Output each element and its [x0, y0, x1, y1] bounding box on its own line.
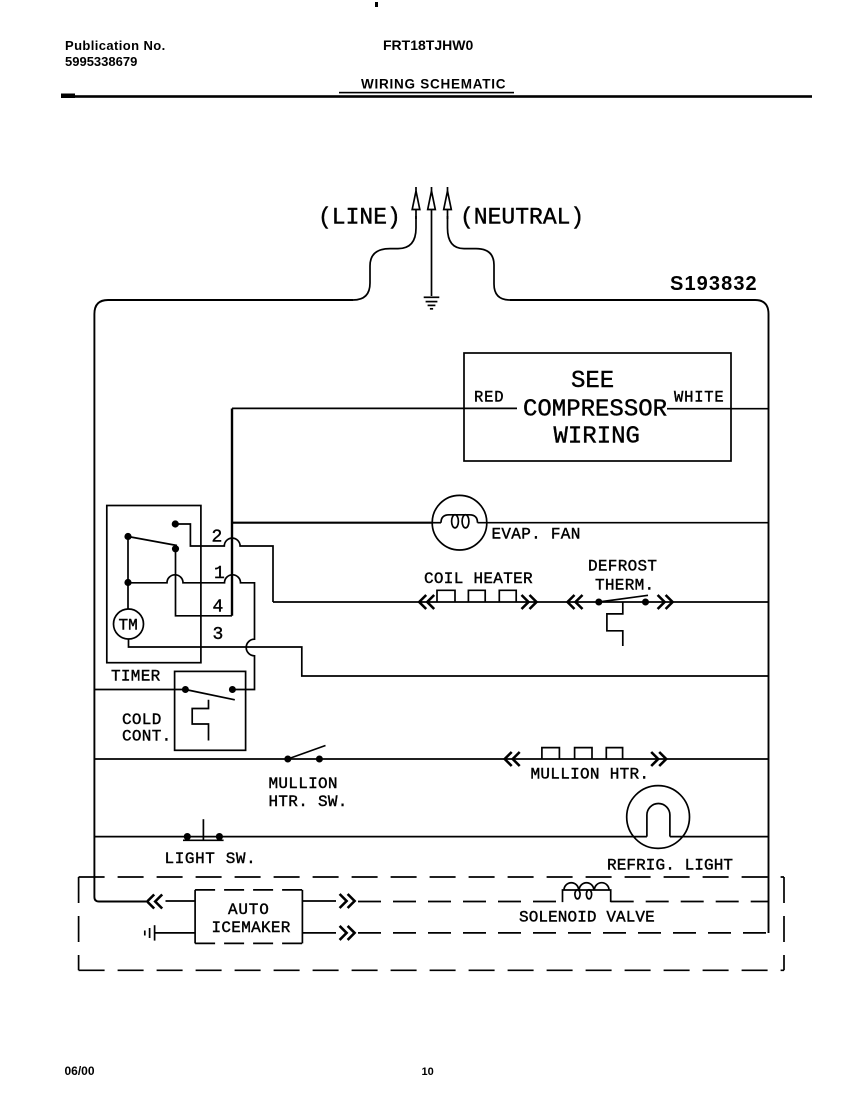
refrigerator light bulb	[627, 786, 690, 849]
defrost therm contact right	[642, 599, 649, 606]
timer motor TM	[114, 609, 144, 639]
svg-text:RED: RED	[474, 389, 504, 407]
plug prong line	[412, 187, 420, 219]
title underline	[339, 92, 514, 94]
wire compressor to white to right border	[667, 408, 769, 410]
defrost therm capillary	[607, 603, 623, 647]
svg-text:(LINE): (LINE)	[318, 205, 401, 231]
svg-text:THERM.: THERM.	[595, 577, 654, 595]
wire heater line	[273, 601, 769, 603]
svg-text:2: 2	[212, 527, 223, 547]
evap fan motor circle	[432, 495, 487, 550]
wire chevron to icemaker	[166, 900, 196, 902]
wire terminal 4	[176, 549, 233, 616]
svg-text:MULLION HTR.: MULLION HTR.	[531, 766, 650, 784]
dashed wire solenoid to border	[611, 901, 769, 903]
plug prong ground pin	[428, 187, 436, 296]
wire evap fan line left	[232, 522, 432, 524]
wire to cold control	[94, 689, 185, 691]
ground symbol under plug	[424, 297, 440, 309]
svg-text:WHITE: WHITE	[674, 389, 725, 407]
timer box	[107, 506, 201, 663]
svg-text:COMPRESSOR: COMPRESSOR	[523, 397, 667, 424]
chevron right mullion heater	[651, 752, 666, 766]
mullion switch arm	[288, 746, 326, 760]
chevron left coil heater	[419, 595, 434, 609]
mullion switch contact right	[316, 756, 323, 763]
icemaker ground	[145, 925, 195, 940]
coil heater element	[437, 590, 516, 602]
svg-text:COIL HEATER: COIL HEATER	[424, 570, 533, 588]
svg-text:SEE: SEE	[571, 368, 614, 395]
cold control contact left	[182, 686, 189, 693]
cold control capillary	[192, 700, 208, 741]
chevron right defrost therm	[658, 595, 673, 609]
wire icemaker to chevron bottom	[302, 932, 336, 934]
svg-text:SOLENOID VALVE: SOLENOID VALVE	[519, 909, 655, 927]
speck top center	[375, 2, 378, 7]
chevron left defrost therm	[568, 595, 583, 609]
wire terminal 1	[128, 575, 255, 690]
svg-text:ICEMAKER: ICEMAKER	[212, 919, 291, 937]
auto icemaker box	[195, 890, 302, 944]
svg-text:FRT18TJHW0: FRT18TJHW0	[383, 37, 473, 53]
svg-text:WIRING SCHEMATIC: WIRING SCHEMATIC	[361, 77, 506, 92]
cold control contact right	[229, 686, 236, 693]
svg-text:DEFROST: DEFROST	[588, 558, 657, 576]
dashed enclosure box	[79, 877, 784, 970]
main border right side	[510, 300, 769, 933]
svg-text:TIMER: TIMER	[111, 668, 161, 686]
dashed wire to solenoid	[358, 901, 563, 903]
wire icemaker to chevron top	[302, 900, 336, 902]
dashed wire icemaker bottom to border	[358, 932, 769, 934]
cold control box	[175, 671, 246, 750]
wire evap fan line right	[478, 522, 769, 524]
timer switch arm	[128, 537, 177, 546]
wire B to D	[127, 537, 129, 583]
wire terminal 3	[129, 639, 769, 676]
mullion switch contact left	[284, 756, 291, 763]
svg-text:CONT.: CONT.	[122, 728, 172, 746]
svg-text:06/00: 06/00	[65, 1064, 95, 1078]
plug prong neutral	[444, 187, 452, 219]
svg-text:3: 3	[213, 625, 224, 645]
svg-text:MULLION: MULLION	[269, 775, 338, 793]
svg-text:WIRING: WIRING	[554, 424, 640, 451]
light switch contact left	[184, 833, 191, 840]
svg-text:COLD: COLD	[122, 711, 162, 729]
timer contact D	[124, 579, 131, 586]
svg-text:AUTO: AUTO	[228, 901, 270, 919]
svg-text:5995338679: 5995338679	[65, 54, 137, 69]
compressor box	[464, 353, 731, 461]
svg-text:HTR. SW.: HTR. SW.	[269, 793, 348, 811]
timer contact C	[172, 545, 179, 552]
chevron left icemaker	[147, 895, 162, 909]
svg-text:REFRIG. LIGHT: REFRIG. LIGHT	[607, 857, 733, 875]
svg-text:LIGHT SW.: LIGHT SW.	[165, 850, 257, 868]
wire mullion line	[94, 758, 768, 760]
defrost therm arm	[599, 595, 648, 602]
timer contact A	[172, 520, 179, 527]
svg-text:10: 10	[422, 1066, 434, 1078]
bulb filament	[647, 804, 670, 837]
chevron right icemaker top	[340, 894, 355, 908]
mullion heater element	[542, 748, 623, 759]
chevron right icemaker bottom	[340, 926, 355, 940]
main border outline	[94, 300, 353, 902]
svg-text:1: 1	[214, 564, 225, 584]
wire light line	[94, 836, 768, 838]
evap fan winding	[432, 515, 477, 528]
chevron left mullion heater	[505, 752, 520, 766]
solenoid valve coil	[563, 883, 611, 902]
wire neutral-prong to top border	[448, 216, 511, 300]
svg-text:TM: TM	[119, 617, 138, 635]
svg-text:(NEUTRAL): (NEUTRAL)	[460, 205, 584, 231]
wire main vertical feed	[231, 409, 233, 616]
svg-text:EVAP. FAN: EVAP. FAN	[492, 526, 581, 544]
wire red to compressor	[232, 407, 517, 409]
chevron right coil heater	[522, 595, 537, 609]
svg-text:Publication No.: Publication No.	[65, 38, 166, 53]
wire terminal 2	[175, 524, 273, 602]
header rule	[61, 95, 812, 98]
svg-text:S193832: S193832	[670, 273, 758, 295]
cold control arm	[185, 690, 234, 700]
light switch bar	[183, 839, 224, 841]
wire line-prong to top border	[353, 216, 416, 300]
defrost therm contact left	[595, 599, 602, 606]
wire D to TM	[127, 583, 129, 610]
svg-text:4: 4	[213, 598, 224, 618]
light switch actuator	[202, 819, 204, 840]
timer contact B	[124, 533, 131, 540]
light switch contact right	[216, 833, 223, 840]
